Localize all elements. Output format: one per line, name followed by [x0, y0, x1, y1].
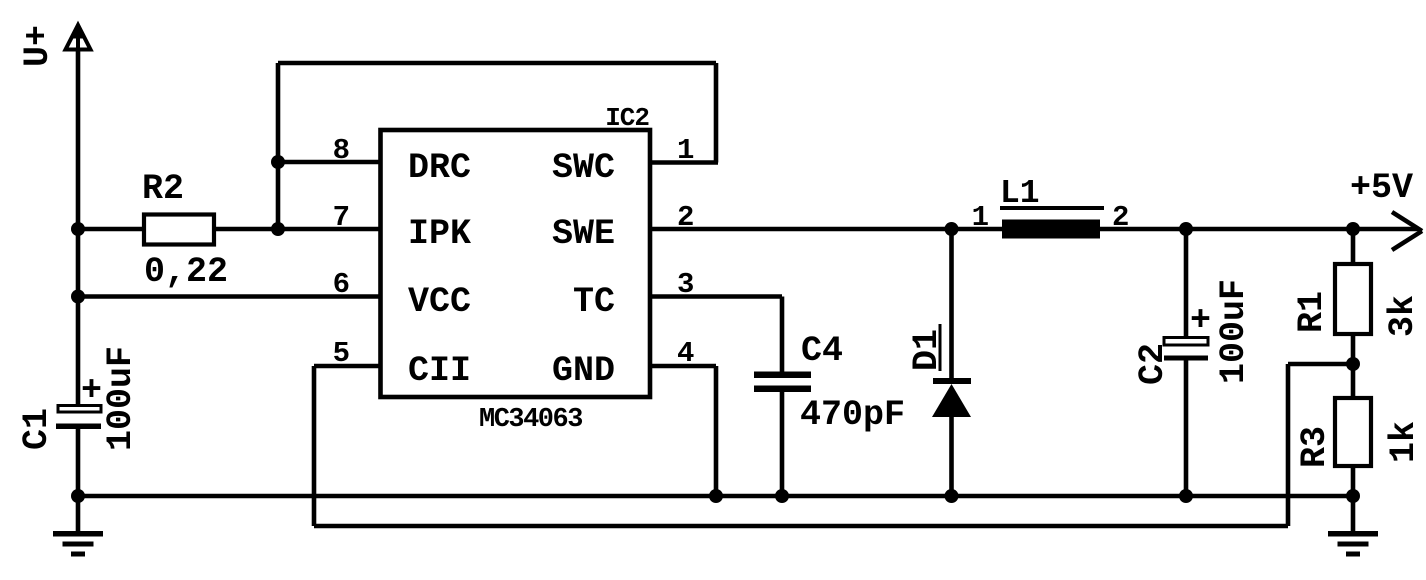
- node D1/L1: [945, 222, 959, 236]
- svg-text:U+: U+: [18, 25, 58, 67]
- svg-text:3k: 3k: [1383, 295, 1423, 337]
- svg-text:1k: 1k: [1384, 421, 1424, 463]
- capacitor C4 bottom plate: [754, 386, 811, 393]
- wire C4 top vertical: [780, 297, 785, 374]
- capacitor C2 top plate (polarized, hollow): [1164, 338, 1208, 346]
- wire pin4 vertical to ground rail: [714, 366, 719, 496]
- ground symbol left: [53, 531, 103, 557]
- capacitor C4 top plate: [754, 372, 811, 379]
- inductor L1 overline: [1000, 206, 1104, 210]
- node C4/ground rail: [775, 489, 789, 503]
- wire pin1 stub: [650, 160, 718, 165]
- wire R3 bottom vertical: [1351, 466, 1356, 531]
- svg-text:470pF: 470pF: [800, 395, 905, 435]
- svg-text:C1: C1: [17, 408, 57, 450]
- wire main horizontal rail y=229: [78, 227, 1419, 232]
- svg-text:8: 8: [333, 134, 350, 167]
- resistor R1 body: [1335, 264, 1371, 334]
- resistor R3 body: [1335, 398, 1371, 466]
- wire R1 top vertical: [1351, 229, 1356, 264]
- node V+/R2: [71, 222, 85, 236]
- svg-text:5: 5: [333, 337, 350, 370]
- svg-text:DRC: DRC: [408, 148, 471, 188]
- node pin4/ground rail: [709, 489, 723, 503]
- IC U1: IC2 MC34063 body: [381, 130, 651, 397]
- svg-text:IC2: IC2: [605, 103, 649, 133]
- wire C1 ground vertical: [76, 429, 81, 531]
- wire C4 bottom vertical: [780, 390, 785, 496]
- svg-text:+: +: [1190, 301, 1211, 341]
- svg-text:4: 4: [677, 337, 694, 370]
- svg-text:0,22: 0,22: [144, 252, 228, 292]
- node L1/C2: [1179, 222, 1193, 236]
- svg-text:+5V: +5V: [1350, 168, 1413, 208]
- resistor R2 body: [144, 215, 214, 245]
- wire pin8 stub: [278, 160, 380, 165]
- diode D1 cathode bar: [933, 378, 971, 384]
- node V+/VCC: [71, 290, 85, 304]
- svg-text:C4: C4: [801, 331, 843, 371]
- capacitor C1 top plate (polarized, hollow): [58, 406, 101, 413]
- svg-text:7: 7: [333, 201, 350, 234]
- node C2/ground rail: [1179, 489, 1193, 503]
- svg-text:1: 1: [677, 134, 694, 167]
- power arrow V+: [66, 24, 91, 52]
- svg-text:2: 2: [1112, 201, 1129, 234]
- +5V output arrow: [1392, 212, 1422, 250]
- svg-text:R2: R2: [142, 169, 184, 209]
- svg-text:1: 1: [972, 201, 989, 234]
- wire C2 top vertical: [1184, 229, 1189, 339]
- svg-text:GND: GND: [552, 351, 615, 391]
- svg-text:R1: R1: [1292, 291, 1332, 333]
- wire D1 bottom vertical: [949, 414, 954, 496]
- wire D1 top vertical: [949, 229, 954, 380]
- svg-text:VCC: VCC: [408, 282, 471, 322]
- wire feedback to divider: [1288, 362, 1353, 367]
- node C1/ground rail: [71, 489, 85, 503]
- node R3/ground rail: [1346, 489, 1360, 503]
- wire pin5 vertical: [312, 366, 317, 526]
- capacitor C2 bottom plate: [1164, 356, 1208, 361]
- wire feedback bottom rail: [314, 524, 1288, 529]
- diode D1 label underline: [939, 324, 942, 371]
- svg-text:TC: TC: [573, 282, 615, 322]
- svg-text:3: 3: [677, 268, 694, 301]
- wire pin5 CII stub: [314, 364, 380, 369]
- svg-text:100uF: 100uF: [1214, 279, 1254, 384]
- wire C2 bottom vertical: [1184, 358, 1189, 496]
- node D1/ground rail: [945, 489, 959, 503]
- ground symbol right: [1328, 531, 1378, 557]
- svg-text:+: +: [81, 371, 102, 411]
- wire vertical to pin8: [276, 63, 281, 229]
- svg-text:6: 6: [333, 268, 350, 301]
- node pin8 junction: [271, 155, 285, 169]
- node pin7 junction: [271, 222, 285, 236]
- svg-text:R3: R3: [1295, 426, 1335, 468]
- wire V+ rail vertical: [76, 30, 81, 405]
- wire R1-R3 vertical: [1351, 334, 1356, 398]
- wire pin4 GND stub: [650, 364, 716, 369]
- wire ground rail: [78, 494, 1353, 499]
- svg-text:IPK: IPK: [408, 214, 471, 254]
- svg-text:C2: C2: [1133, 343, 1173, 385]
- node output/R1: [1346, 222, 1360, 236]
- wire pin3 TC: [650, 294, 782, 299]
- wire feedback vertical right: [1286, 364, 1291, 526]
- node R1/R3 feedback: [1346, 357, 1360, 371]
- wire vertical pin1: [714, 63, 719, 163]
- svg-text:SWE: SWE: [552, 214, 615, 254]
- wire VCC pin6: [78, 294, 380, 299]
- svg-text:SWC: SWC: [552, 148, 615, 188]
- capacitor C1 bottom plate: [56, 424, 101, 430]
- inductor L1 body: [1002, 220, 1100, 239]
- diode D1 triangle: [932, 384, 971, 417]
- svg-text:CII: CII: [408, 351, 471, 391]
- svg-text:2: 2: [677, 201, 694, 234]
- svg-text:MC34063: MC34063: [479, 405, 582, 435]
- svg-text:L1: L1: [1000, 175, 1040, 212]
- wire top feedback to SWC: [278, 61, 716, 66]
- svg-text:100uF: 100uF: [101, 346, 141, 451]
